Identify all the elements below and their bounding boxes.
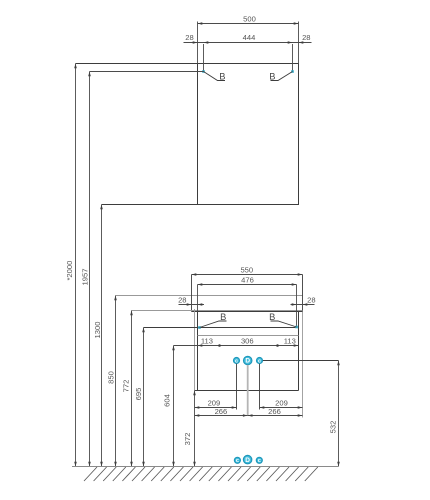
height 1300 connector (mirror bottom extension) xyxy=(102,204,198,206)
height dimension 1957 line xyxy=(89,72,91,467)
dimension 266 left line xyxy=(195,415,248,417)
cabinet left side xyxy=(197,312,199,391)
height dimension *2000 line xyxy=(75,64,77,467)
svg-text:28: 28 xyxy=(302,33,310,42)
svg-text:1300: 1300 xyxy=(93,322,102,339)
svg-text:c: c xyxy=(235,358,238,364)
label B left (mirror) leader xyxy=(204,72,226,81)
height 1957 connector xyxy=(90,71,204,73)
connection circle C left (cabinet) xyxy=(234,358,240,364)
height dimension 604 line xyxy=(173,346,175,467)
label B right (vanity) leader xyxy=(271,321,297,327)
svg-text:604: 604 xyxy=(163,394,172,407)
svg-text:*2000: *2000 xyxy=(65,261,74,281)
drop line from C left xyxy=(236,364,238,410)
height dimension 1300 line xyxy=(101,205,103,467)
mirror cabinet outline xyxy=(198,64,299,205)
svg-text:850: 850 xyxy=(107,371,116,384)
floor connection circle C right xyxy=(256,457,262,463)
svg-text:D: D xyxy=(245,358,250,365)
mounting dots row line (695 level) xyxy=(144,327,297,329)
dimension 209 right line xyxy=(260,407,303,409)
washbasin outline left xyxy=(191,275,193,312)
dimension 550 line xyxy=(192,274,303,276)
dimension 28 right line (vanity) xyxy=(291,304,315,306)
dimension 476 line xyxy=(198,284,297,286)
ground hatching xyxy=(84,467,318,481)
washbasin bottom rim xyxy=(192,311,303,313)
height dimension 372 line xyxy=(194,391,196,467)
svg-text:B: B xyxy=(269,72,275,82)
connection circle D (cabinet) xyxy=(244,356,252,364)
svg-text:476: 476 xyxy=(241,276,254,285)
height dimension 850 line xyxy=(115,296,117,467)
ground line xyxy=(72,466,339,468)
dimension 500 extension line left xyxy=(197,22,199,64)
floor connection circle D xyxy=(243,455,251,463)
svg-text:c: c xyxy=(236,458,239,464)
cabinet right side xyxy=(298,312,300,391)
svg-text:532: 532 xyxy=(329,421,338,434)
svg-text:B: B xyxy=(220,312,226,322)
svg-text:c: c xyxy=(258,358,261,364)
drop line from D (gray) xyxy=(247,365,249,416)
svg-text:28: 28 xyxy=(185,33,193,42)
dimension 444 extension line right xyxy=(292,44,294,72)
svg-text:266: 266 xyxy=(215,407,228,416)
svg-text:28: 28 xyxy=(307,296,315,305)
dimension 532 line xyxy=(338,361,340,467)
washbasin bottom gray line (772 level) xyxy=(132,310,303,312)
gray extension line left xyxy=(194,309,196,391)
svg-text:B: B xyxy=(219,72,225,82)
svg-text:28: 28 xyxy=(178,296,186,305)
svg-text:113: 113 xyxy=(201,337,213,346)
washbasin top line (850 level) xyxy=(116,295,303,297)
dimension 500 line xyxy=(198,23,299,25)
svg-text:772: 772 xyxy=(122,380,131,393)
dimension 28 left line (vanity) xyxy=(179,304,205,306)
dimension 28-444-28 line xyxy=(184,42,312,44)
floor connection circle C left xyxy=(234,457,240,463)
vanity mounting dot B left xyxy=(198,326,201,329)
height dimension 772 line xyxy=(131,311,133,467)
svg-text:444: 444 xyxy=(243,33,256,42)
svg-text:1957: 1957 xyxy=(80,269,89,286)
dimension 476 extension left xyxy=(197,285,199,312)
dimension 500 extension line right xyxy=(298,22,300,64)
label B left (vanity) leader xyxy=(200,321,227,328)
drop line from C right xyxy=(259,364,261,410)
mirror mounting dot B left xyxy=(202,70,205,73)
svg-text:500: 500 xyxy=(243,15,256,24)
svg-text:372: 372 xyxy=(183,433,192,446)
height 2000 connector (mirror top extension) xyxy=(76,63,198,65)
mirror mounting dot B right xyxy=(291,70,294,73)
label B right (mirror) leader xyxy=(271,72,293,81)
connector line to 532 dimension xyxy=(263,360,339,362)
dimension 266 right line xyxy=(248,415,303,417)
cabinet bottom xyxy=(195,390,299,392)
dimension 113-306-113 line (604 level) xyxy=(174,345,299,347)
drawer top line xyxy=(198,335,299,337)
dimension 444 extension line left xyxy=(203,44,205,72)
dimension 209 left line xyxy=(195,407,237,409)
dimension 476 extension right xyxy=(296,285,298,328)
svg-text:B: B xyxy=(269,312,275,322)
vanity mounting dot B right xyxy=(295,326,298,329)
connection circle C right (cabinet) xyxy=(257,358,263,364)
svg-text:306: 306 xyxy=(241,336,254,345)
svg-text:550: 550 xyxy=(240,266,253,275)
svg-text:695: 695 xyxy=(134,388,143,401)
height dimension 695 line xyxy=(143,328,145,467)
svg-text:113: 113 xyxy=(284,337,296,346)
gray extension line right xyxy=(302,312,304,418)
washbasin outline right xyxy=(302,275,304,312)
svg-text:266: 266 xyxy=(268,407,281,416)
svg-text:c: c xyxy=(258,458,261,464)
svg-text:D: D xyxy=(245,457,250,464)
